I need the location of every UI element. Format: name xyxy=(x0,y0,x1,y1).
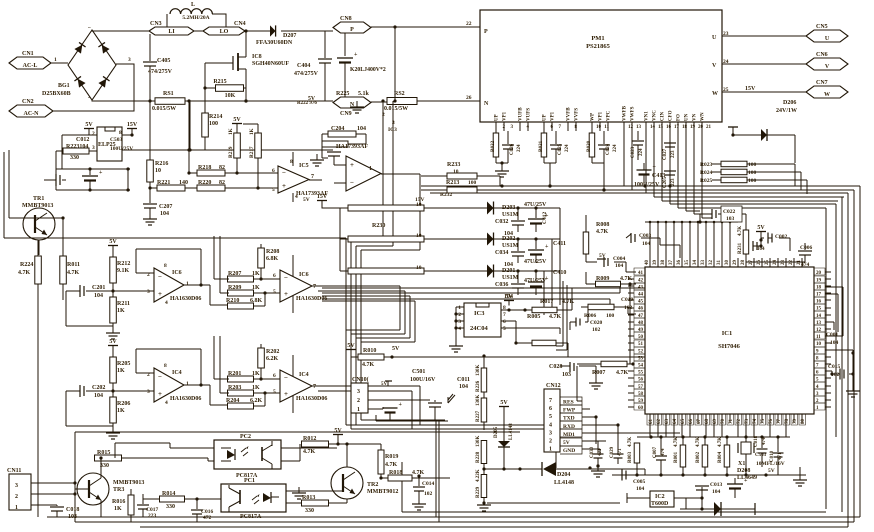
svg-text:C201: C201 xyxy=(92,285,105,291)
svg-text:R014: R014 xyxy=(162,491,175,497)
svg-text:+: + xyxy=(158,390,162,398)
svg-text:17: 17 xyxy=(674,125,680,130)
svg-text:40: 40 xyxy=(645,260,650,266)
connector CN4 xyxy=(203,27,245,35)
wire cn12 fwp xyxy=(582,408,590,410)
capacitor C413 100U/25V xyxy=(637,169,652,171)
svg-text:HA1630D06: HA1630D06 xyxy=(296,396,327,402)
svg-text:82: 82 xyxy=(219,180,225,186)
wire R009 net xyxy=(586,272,636,364)
svg-text:CN9: CN9 xyxy=(340,111,352,117)
connector CN7 xyxy=(806,86,848,98)
wire R022 C026 join xyxy=(496,162,508,164)
wire cn12 md1 xyxy=(582,432,680,434)
junction tr3 col xyxy=(99,456,102,459)
wire IC6 left loop xyxy=(66,291,113,326)
svg-text:5V: 5V xyxy=(109,239,117,245)
wire CN11 p3 xyxy=(31,482,75,484)
wire W out xyxy=(722,91,806,93)
svg-text:R201: R201 xyxy=(228,371,241,377)
svg-text:RS1: RS1 xyxy=(163,91,174,97)
svg-text:R220: R220 xyxy=(198,180,211,186)
IC2 regulator xyxy=(650,491,674,507)
wire mid bus r2 xyxy=(322,301,415,342)
wire row2 to diode xyxy=(340,238,487,240)
svg-text:104: 104 xyxy=(357,126,366,132)
resistor R015 xyxy=(95,455,122,461)
svg-text:19: 19 xyxy=(816,278,822,283)
wire R011 leads xyxy=(62,218,64,300)
resistor R230 row3 xyxy=(348,268,424,274)
op-amp IC4 xyxy=(292,355,294,413)
svg-text:3: 3 xyxy=(458,319,461,325)
svg-text:32: 32 xyxy=(709,260,714,266)
resistor R221 xyxy=(157,185,185,191)
wire 15V rail xyxy=(122,133,132,135)
svg-text:104: 104 xyxy=(712,489,721,495)
junction cell bottoms xyxy=(548,184,605,191)
resistor R006 xyxy=(588,304,614,310)
wire R224 leads xyxy=(38,240,520,517)
svg-text:100: 100 xyxy=(209,121,218,127)
svg-text:US1M: US1M xyxy=(502,243,519,249)
svg-text:VUFS: VUFS xyxy=(527,108,532,121)
svg-text:100: 100 xyxy=(468,180,477,186)
svg-text:6: 6 xyxy=(272,168,275,174)
svg-text:R230: R230 xyxy=(372,223,385,229)
wire rail y214 xyxy=(694,213,700,215)
resistor R219 xyxy=(236,128,238,133)
wire N rail left xyxy=(92,100,155,101)
capacitor C002 xyxy=(767,233,769,244)
svg-text:R001: R001 xyxy=(674,451,679,463)
capacitor C030 471 xyxy=(597,441,599,453)
svg-text:UN: UN xyxy=(685,113,690,121)
wire x1 bottom xyxy=(745,460,747,475)
svg-text:1K: 1K xyxy=(114,506,122,512)
svg-text:HA1630D06: HA1630D06 xyxy=(170,396,201,402)
svg-text:VVFS: VVFS xyxy=(575,108,580,121)
svg-text:HA1630D06: HA1630D06 xyxy=(170,296,201,302)
svg-text:474: 474 xyxy=(801,262,810,268)
svg-text:R225: R225 xyxy=(336,91,349,97)
svg-text:60: 60 xyxy=(638,406,644,411)
ground C204 xyxy=(316,154,318,160)
svg-text:IC6: IC6 xyxy=(172,270,182,276)
diode D204 xyxy=(484,468,542,470)
wire IC6 out xyxy=(312,285,318,287)
junction cn11 xyxy=(73,481,76,495)
svg-text:43: 43 xyxy=(638,285,644,290)
svg-text:R233: R233 xyxy=(447,162,460,168)
capacitor C404 xyxy=(324,31,326,58)
wire opto out 15V xyxy=(122,101,190,150)
svg-text:+: + xyxy=(350,161,354,169)
transistor TR1 xyxy=(23,208,55,240)
svg-text:IC3: IC3 xyxy=(474,310,485,317)
wire gate to R215 xyxy=(205,63,216,88)
wire row3 to diode xyxy=(340,270,487,272)
svg-text:104: 104 xyxy=(636,486,645,492)
wire bridge top to CN3 xyxy=(92,30,149,31)
svg-text:VPC: VPC xyxy=(607,110,612,121)
wire D201 cathode xyxy=(494,270,561,272)
wire c002 net xyxy=(753,238,790,251)
svg-text:100: 100 xyxy=(748,162,757,168)
junction bottom right xyxy=(659,473,767,476)
svg-text:PC1: PC1 xyxy=(244,478,255,484)
svg-text:37: 37 xyxy=(669,260,674,266)
optocoupler ELP25 xyxy=(97,127,122,161)
wire IC4 out xyxy=(312,385,318,387)
svg-text:R005: R005 xyxy=(527,314,540,320)
svg-text:R016: R016 xyxy=(112,499,125,505)
resistor R005 xyxy=(532,340,556,346)
wire IC3 pin8 xyxy=(501,309,532,311)
svg-text:5V: 5V xyxy=(233,117,241,123)
junction D203 xyxy=(516,206,537,209)
wire R004 leads xyxy=(726,437,728,475)
capacitor C202 xyxy=(66,390,80,392)
resistor R002 xyxy=(702,445,708,467)
wire R215 to source xyxy=(244,87,247,89)
resistor R220 xyxy=(197,185,225,191)
svg-text:1K: 1K xyxy=(117,368,125,374)
wire IC1 top bus xyxy=(645,221,738,223)
wire R014 leads xyxy=(143,498,221,500)
wire adc bus y288 xyxy=(322,287,645,289)
wire bottom rail y475 xyxy=(612,474,806,476)
svg-text:5V: 5V xyxy=(334,428,342,434)
svg-text:LL4148: LL4148 xyxy=(554,480,574,486)
wire R020 C024 join xyxy=(592,162,604,164)
resistor chain R227 xyxy=(483,392,485,398)
wire IC3 pin5 xyxy=(501,328,560,334)
svg-text:3: 3 xyxy=(15,483,18,489)
svg-text:34: 34 xyxy=(693,260,698,266)
resistor R216 xyxy=(149,101,151,160)
left rail R011 xyxy=(60,256,67,284)
svg-text:330: 330 xyxy=(166,504,175,510)
connector CN11 xyxy=(9,474,31,510)
wire CN11 p1 xyxy=(31,504,57,506)
svg-text:10: 10 xyxy=(596,125,602,130)
svg-text:30: 30 xyxy=(725,260,730,266)
wire R208 leads xyxy=(260,244,262,279)
svg-text:R228: R228 xyxy=(476,451,481,463)
wire rail y193 xyxy=(430,192,848,194)
capacitor C011 body xyxy=(434,400,436,402)
svg-text:D204: D204 xyxy=(557,472,570,478)
junction c002 xyxy=(759,238,762,247)
wire IC1 bottom pin drops xyxy=(650,423,786,437)
resistor R012 xyxy=(302,441,329,447)
svg-text:V: V xyxy=(825,64,830,70)
svg-text:W: W xyxy=(712,91,718,97)
wire R019 leads xyxy=(380,444,382,478)
wire TR3 emitter xyxy=(100,500,102,517)
wire R015 right xyxy=(115,443,214,461)
svg-text:CN11: CN11 xyxy=(7,468,21,474)
connector CN1 xyxy=(9,57,51,69)
svg-text:MD1: MD1 xyxy=(563,432,575,438)
bus bottom y512 xyxy=(402,511,826,513)
svg-text:6.8K: 6.8K xyxy=(266,256,279,262)
wire c025 c024 row xyxy=(550,163,604,190)
svg-text:104: 104 xyxy=(94,393,103,399)
svg-text:35: 35 xyxy=(685,260,690,266)
wire ladder right leg xyxy=(127,169,129,190)
svg-text:R018: R018 xyxy=(389,470,402,476)
svg-text:R208: R208 xyxy=(266,249,279,255)
svg-text:C024: C024 xyxy=(606,143,611,155)
wire R010 out xyxy=(384,356,645,358)
svg-text:IC2: IC2 xyxy=(655,494,665,500)
resistor R230 row2 xyxy=(348,236,424,242)
svg-text:3: 3 xyxy=(392,120,395,126)
junction d204 row xyxy=(502,466,591,470)
svg-text:AC-L: AC-L xyxy=(23,63,38,69)
junction c015 xyxy=(830,351,854,375)
svg-text:4: 4 xyxy=(165,300,168,306)
svg-text:130K: 130K xyxy=(476,365,481,377)
capacitor 104 cell xyxy=(760,236,762,240)
wire pin17 right xyxy=(825,294,838,332)
svg-text:223: 223 xyxy=(671,150,676,158)
svg-text:C025: C025 xyxy=(558,143,563,155)
svg-text:+: + xyxy=(99,170,103,176)
svg-text:C001: C001 xyxy=(826,332,838,338)
resistor R016 xyxy=(128,495,134,515)
wire bus loop B xyxy=(351,242,383,429)
svg-text:4.22K: 4.22K xyxy=(476,469,481,482)
wire IC2 left xyxy=(627,493,650,503)
wire 15V feed xyxy=(322,205,340,271)
svg-text:104: 104 xyxy=(830,340,839,346)
svg-text:5V: 5V xyxy=(392,346,400,352)
svg-text:C404: C404 xyxy=(297,63,310,69)
svg-text:D207: D207 xyxy=(283,33,296,39)
wire R021 C025 join xyxy=(544,162,556,164)
bus right v4 xyxy=(841,197,843,512)
svg-text:42: 42 xyxy=(638,278,644,283)
svg-text:102: 102 xyxy=(424,491,433,497)
wire IC4 divider xyxy=(112,383,114,432)
svg-text:MMBT9013: MMBT9013 xyxy=(113,480,144,486)
resistor R204 xyxy=(228,403,254,409)
svg-text:6: 6 xyxy=(503,319,506,325)
junction r018 xyxy=(379,474,420,479)
ground C014 xyxy=(418,498,420,504)
svg-text:15V: 15V xyxy=(745,86,756,92)
svg-text:~: ~ xyxy=(88,26,91,31)
capacitor C405 xyxy=(149,34,151,61)
svg-text:−: − xyxy=(350,179,354,187)
bus bottom y517 xyxy=(47,516,860,518)
resistor R208 xyxy=(258,248,265,268)
connector CN3 xyxy=(149,27,194,35)
svg-text:5: 5 xyxy=(273,289,276,295)
wire R003 down xyxy=(636,463,638,475)
resistor R206 xyxy=(110,397,117,423)
svg-text:10K: 10K xyxy=(225,93,236,99)
wire IC4 in xyxy=(113,373,154,391)
svg-text:PC2: PC2 xyxy=(240,434,251,440)
svg-text:22: 22 xyxy=(466,21,472,27)
capacitor C010 471 xyxy=(777,437,779,452)
svg-text:VN: VN xyxy=(693,113,698,121)
svg-text:C018: C018 xyxy=(66,507,79,513)
left rail R224 xyxy=(35,256,42,284)
ground near CN9 xyxy=(356,103,358,106)
svg-text:VUFB: VUFB xyxy=(519,107,524,121)
svg-text:C010: C010 xyxy=(770,450,775,462)
resistors R023 R024 R025 xyxy=(721,161,747,167)
capacitor C018b 103 xyxy=(56,505,58,506)
diode D206 xyxy=(728,126,738,128)
bus left risers xyxy=(401,462,403,512)
svg-text:R203: R203 xyxy=(228,385,241,391)
svg-text:1: 1 xyxy=(54,57,57,63)
svg-text:130K: 130K xyxy=(476,436,481,448)
wire bus bottoms xyxy=(346,420,556,468)
svg-text:R011: R011 xyxy=(67,262,80,268)
svg-text:C503: C503 xyxy=(110,137,122,143)
comparator IC5b xyxy=(346,156,381,191)
svg-text:104: 104 xyxy=(757,247,765,252)
capacitor C205 223 xyxy=(669,165,671,170)
resistor R020 xyxy=(591,131,593,133)
svg-text:R216: R216 xyxy=(155,161,168,167)
svg-text:15V: 15V xyxy=(127,122,138,128)
svg-text:6: 6 xyxy=(273,273,276,279)
svg-text:18: 18 xyxy=(682,125,688,130)
wire bus loop D xyxy=(361,250,420,420)
bus right v2 xyxy=(853,190,855,522)
diode D203 xyxy=(487,202,494,215)
ground C026 xyxy=(501,163,503,170)
svg-text:R021: R021 xyxy=(539,140,544,152)
svg-text:R205: R205 xyxy=(117,361,130,367)
svg-text:41: 41 xyxy=(638,271,644,276)
svg-text:100: 100 xyxy=(748,178,757,184)
wire IC4 in2 xyxy=(254,392,281,394)
svg-text:T600D: T600D xyxy=(651,501,669,507)
wire TR3 base xyxy=(75,488,89,490)
svg-text:C018: C018 xyxy=(754,435,759,447)
svg-text:P: P xyxy=(484,29,488,35)
junction r219 r217 xyxy=(235,171,259,189)
junction R007 xyxy=(631,362,634,365)
ground C030 xyxy=(597,465,599,471)
svg-text:3: 3 xyxy=(128,57,131,63)
ground bottom right xyxy=(799,467,801,479)
junction IC3 pins xyxy=(454,312,457,329)
capacitor C026 224 xyxy=(507,131,509,144)
ground C207 xyxy=(149,213,151,219)
capacitor C012 body xyxy=(44,179,56,181)
junction cn12 links xyxy=(594,415,619,426)
wire D205 down xyxy=(503,447,505,469)
svg-text:D208: D208 xyxy=(737,468,750,474)
junction d206 xyxy=(731,133,734,136)
svg-text:1: 1 xyxy=(458,305,461,311)
resistor R205 xyxy=(112,350,114,357)
capacitor C027 223 xyxy=(669,131,671,142)
svg-text:10: 10 xyxy=(416,233,422,239)
IC1 right pins 20-1 xyxy=(814,268,831,411)
svg-text:R232: R232 xyxy=(440,192,452,198)
svg-text:C034: C034 xyxy=(495,250,508,256)
svg-text:VWFS: VWFS xyxy=(631,106,636,121)
op-amp IC5 xyxy=(278,166,309,193)
resistor R215 xyxy=(216,85,244,92)
wire rail y211 xyxy=(686,210,700,212)
svg-text:R206: R206 xyxy=(117,401,130,407)
wire rail y186 xyxy=(421,185,860,187)
svg-text:5V: 5V xyxy=(308,96,316,102)
svg-text:472: 472 xyxy=(203,515,212,521)
resistor R223 xyxy=(63,148,89,154)
svg-text:SGH40N60UF: SGH40N60UF xyxy=(252,61,289,67)
svg-text:TR2: TR2 xyxy=(367,482,378,488)
wire R012 5V xyxy=(329,437,382,444)
wire C028 net xyxy=(560,366,596,382)
svg-text:C013: C013 xyxy=(710,482,722,488)
svg-text:104: 104 xyxy=(615,263,624,269)
svg-text:R227: R227 xyxy=(476,410,481,422)
capacitor C034 xyxy=(517,239,519,251)
svg-text:C029: C029 xyxy=(610,446,615,458)
svg-text:C007: C007 xyxy=(653,446,658,458)
svg-text:474: 474 xyxy=(661,448,666,456)
svg-text:9.1K: 9.1K xyxy=(117,268,130,274)
capacitor C005 xyxy=(621,470,623,481)
bus right v1 xyxy=(859,186,861,517)
svg-text:C019: C019 xyxy=(621,297,633,303)
wire IC6b bus xyxy=(318,291,405,334)
resistor R004 xyxy=(724,445,730,467)
svg-text:4.7K: 4.7K xyxy=(696,437,701,447)
wire IC5b inputs xyxy=(334,160,346,183)
svg-text:5V: 5V xyxy=(599,253,606,259)
svg-text:IC8: IC8 xyxy=(252,54,262,60)
wire IC6 in xyxy=(113,273,154,291)
svg-text:R202: R202 xyxy=(266,349,279,355)
junction x189 xyxy=(187,148,190,174)
svg-text:4.7K: 4.7K xyxy=(562,299,575,305)
connector CN5 xyxy=(806,30,848,42)
wire C015 net xyxy=(825,350,853,390)
svg-text:104: 104 xyxy=(94,293,103,299)
junction P rail xyxy=(393,25,396,28)
wire adc bus y293 xyxy=(322,284,636,293)
svg-text:31: 31 xyxy=(717,260,722,266)
svg-text:−: − xyxy=(284,374,288,382)
svg-text:C503: C503 xyxy=(755,453,767,458)
wire R221 leads xyxy=(150,187,278,189)
svg-text:FO: FO xyxy=(677,114,682,121)
wire IC4 left loop xyxy=(66,391,113,426)
junction IC4 out xyxy=(199,383,202,386)
wire C022 net xyxy=(700,214,746,230)
svg-text:R212: R212 xyxy=(117,261,130,267)
junction ladder xyxy=(88,167,129,191)
svg-text:100U/25V: 100U/25V xyxy=(634,182,660,188)
svg-text:16: 16 xyxy=(666,125,672,130)
svg-text:IC1: IC1 xyxy=(722,330,732,337)
wire TR3 collector xyxy=(100,458,102,478)
